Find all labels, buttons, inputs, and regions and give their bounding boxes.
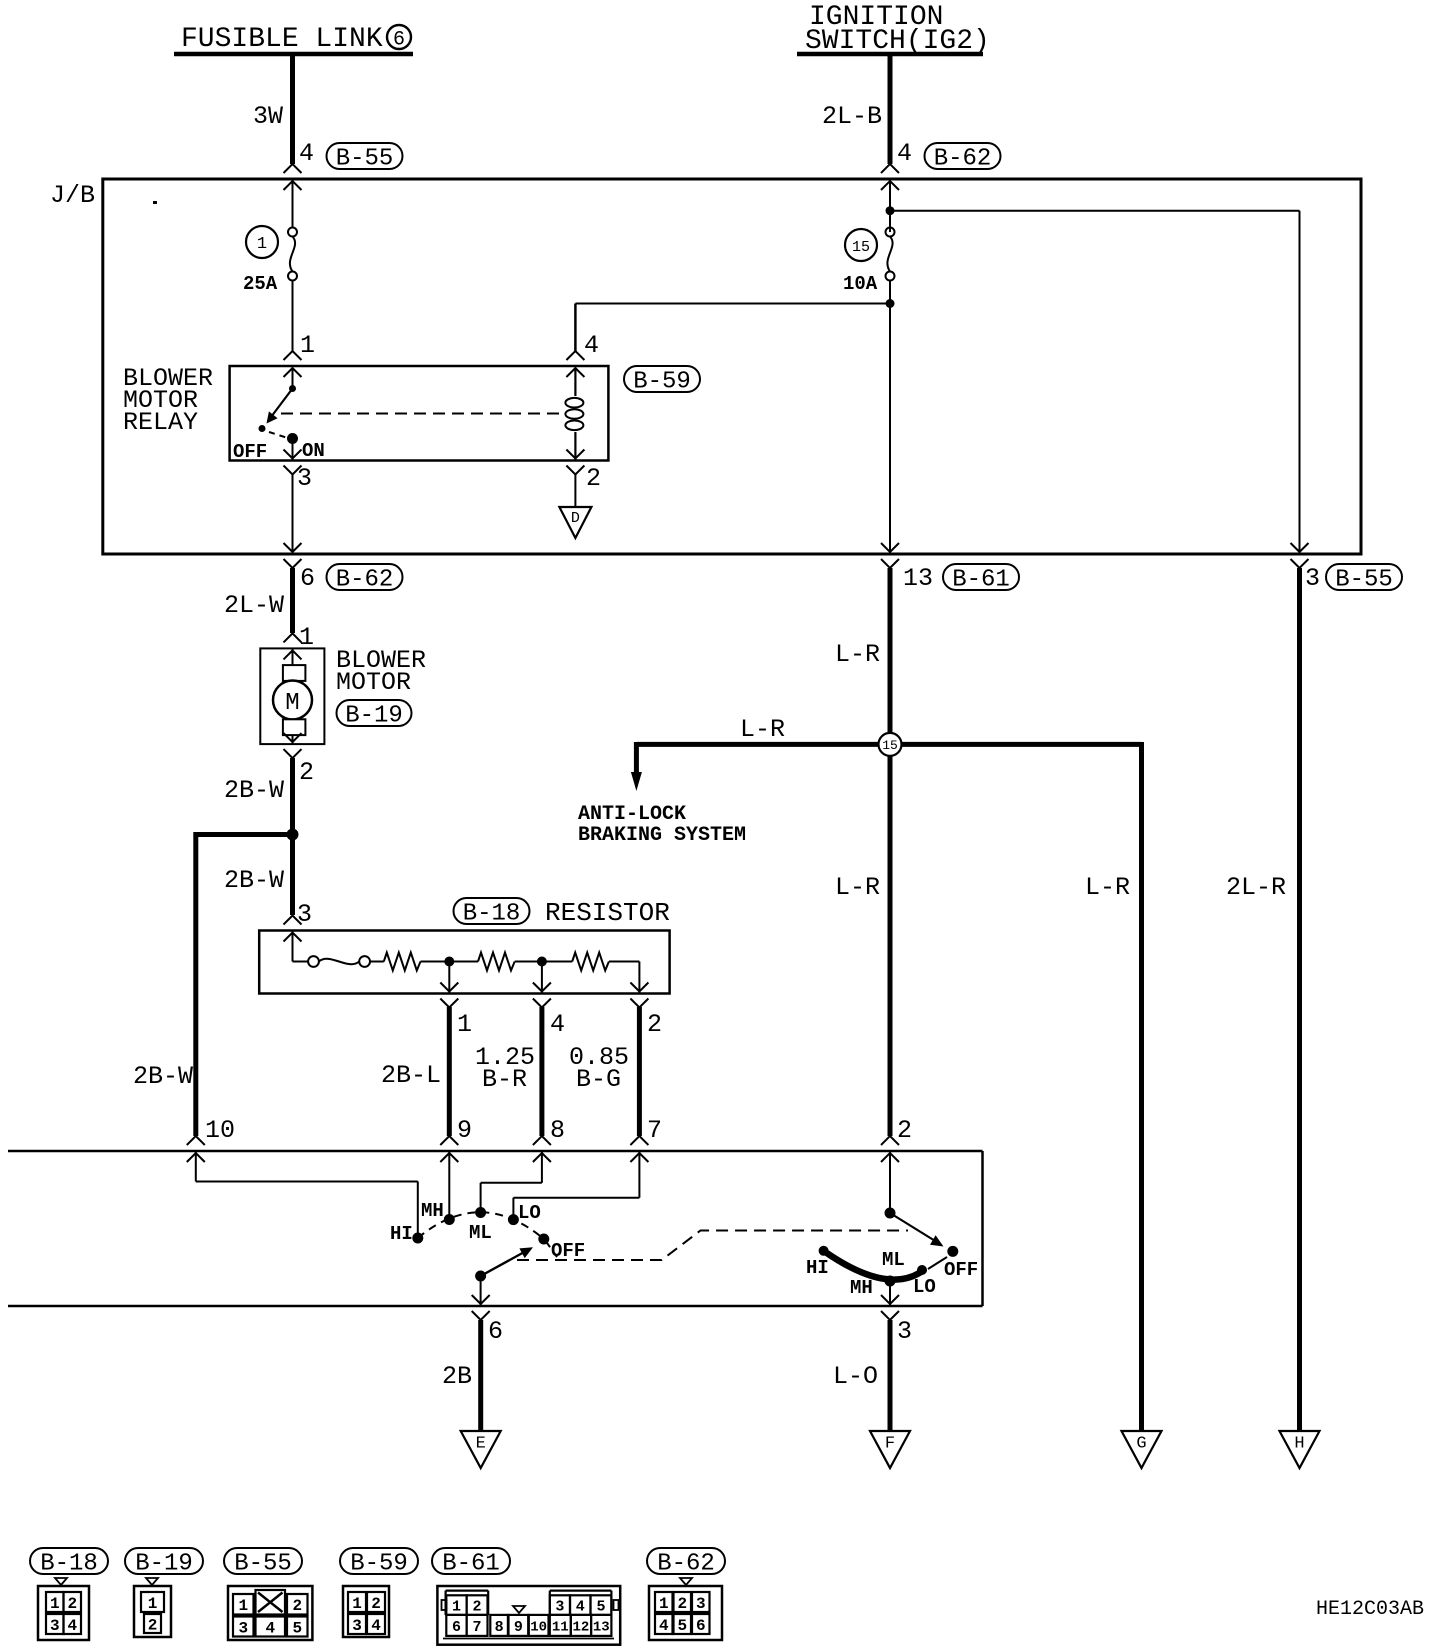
svg-text:FUSIBLE LINK: FUSIBLE LINK: [181, 24, 383, 55]
wire 2L-W to blower motor: [224, 568, 293, 633]
svg-text:ON: ON: [302, 440, 325, 462]
svg-text:RESISTOR: RESISTOR: [545, 898, 670, 928]
blower motor M1 (B-19): [260, 623, 426, 744]
wire 2B-W motor to junction: [224, 758, 293, 835]
svg-text:6: 6: [488, 1317, 503, 1346]
relay dashed actuation link: [281, 413, 566, 415]
svg-text:4: 4: [584, 331, 599, 360]
switch pin 8: [533, 1116, 565, 1162]
svg-text:4: 4: [659, 1617, 669, 1635]
svg-text:2B-L: 2B-L: [381, 1061, 441, 1090]
svg-text:2: 2: [67, 1595, 77, 1613]
svg-text:6: 6: [696, 1617, 706, 1635]
svg-text:2B: 2B: [442, 1362, 472, 1391]
svg-text:4: 4: [67, 1617, 77, 1635]
ground H: [1280, 1431, 1320, 1468]
svg-text:13: 13: [903, 564, 933, 593]
contact OFF (right): [928, 1246, 978, 1281]
svg-text:B-18: B-18: [463, 901, 521, 928]
svg-text:3: 3: [897, 1317, 912, 1346]
svg-text:2B-W: 2B-W: [224, 776, 284, 805]
drawing number HE12C03AB: [1316, 1598, 1424, 1621]
svg-text:OFF: OFF: [551, 1240, 585, 1262]
svg-text:3: 3: [352, 1617, 362, 1635]
right switch labels: [806, 1249, 936, 1299]
connector B-55 pin 3 (J/B bottom exit): [1291, 543, 1403, 594]
svg-text:2L-W: 2L-W: [224, 591, 284, 620]
resistor pin 2: [630, 983, 662, 1040]
svg-text:2L-R: 2L-R: [1226, 873, 1286, 902]
connector diagram B-19 label: [125, 1548, 203, 1578]
connector B-62 pin 4 (top entry): [881, 139, 1001, 190]
relay pin 3: [284, 450, 313, 494]
svg-text:4: 4: [299, 139, 314, 168]
svg-text:10: 10: [530, 1619, 547, 1635]
node switch common: [475, 1271, 486, 1282]
dashed link left OFF to right wiper: [517, 1231, 908, 1261]
resistor element R-b: [449, 953, 542, 971]
switch pin 3 exit: [881, 1295, 912, 1346]
svg-text:13: 13: [593, 1619, 610, 1635]
svg-text:B-55: B-55: [336, 146, 394, 173]
contact MH (left): [421, 1200, 455, 1225]
svg-text:12: 12: [573, 1619, 590, 1635]
resistor pin 4: [533, 983, 565, 1040]
blower motor pin 2: [284, 733, 315, 787]
svg-text:9: 9: [457, 1116, 472, 1145]
svg-text:B-62: B-62: [657, 1551, 715, 1578]
wire pin 2 to right wiper: [889, 1151, 891, 1213]
svg-text:1: 1: [659, 1595, 669, 1613]
wire 2B to ground E: [442, 1320, 481, 1431]
svg-text:LO: LO: [518, 1202, 541, 1224]
svg-text:M: M: [285, 690, 299, 717]
svg-text:B-59: B-59: [350, 1551, 408, 1578]
svg-text:RELAY: RELAY: [123, 408, 198, 437]
svg-text:7: 7: [647, 1116, 662, 1145]
wire pin 8 to ML contact: [481, 1151, 542, 1213]
svg-text:B-62: B-62: [336, 567, 394, 594]
svg-text:L-R: L-R: [835, 640, 880, 669]
relay pin 4: [566, 331, 599, 377]
wire 2B-W branch to switch pin 10: [133, 832, 293, 1136]
svg-text:ML: ML: [469, 1222, 492, 1244]
power source IGNITION SWITCH (IG2): [797, 2, 990, 57]
svg-text:2: 2: [148, 1616, 158, 1634]
svg-text:1: 1: [238, 1597, 248, 1615]
svg-text:3: 3: [50, 1617, 60, 1635]
svg-text:L-R: L-R: [1085, 873, 1130, 902]
contact HI (left): [390, 1223, 423, 1245]
svg-text:4: 4: [897, 139, 912, 168]
wire 2L-R to ground H: [1226, 568, 1300, 1431]
resistor pin 1: [440, 983, 472, 1040]
svg-text:7: 7: [473, 1619, 482, 1636]
svg-text:1: 1: [452, 1599, 461, 1616]
svg-text:2: 2: [586, 464, 601, 493]
svg-text:MOTOR: MOTOR: [336, 668, 411, 697]
connector diagram B-59 label: [340, 1548, 418, 1578]
svg-text:1: 1: [257, 235, 267, 254]
wire 0.85 B-G: [569, 1007, 639, 1136]
svg-text:MH: MH: [421, 1200, 444, 1222]
resistor element R-c: [542, 953, 640, 971]
svg-text:D: D: [571, 510, 580, 527]
wire L-R lower to switch pin 2: [835, 756, 890, 1136]
switch pin 6 exit: [472, 1295, 503, 1346]
contact OFF (left): [538, 1234, 585, 1263]
ground F: [870, 1431, 910, 1468]
power source FUSIBLE LINK 6: [174, 24, 413, 55]
wire 3W from fusible link: [253, 54, 293, 164]
svg-text:B-61: B-61: [952, 567, 1010, 594]
svg-text:8: 8: [495, 1619, 504, 1636]
resistor R1 (B-18): [259, 898, 670, 994]
connector diagram B-59: [343, 1586, 389, 1637]
svg-text:4: 4: [371, 1617, 381, 1635]
wire relay pin 2 to ground D: [574, 474, 576, 507]
resistor element R-a: [384, 953, 450, 971]
svg-text:6: 6: [393, 29, 405, 52]
svg-text:3: 3: [297, 464, 312, 493]
svg-text:B-19: B-19: [345, 703, 403, 730]
connector B-61 pin 13 (J/B bottom exit): [881, 543, 1019, 594]
svg-text:MH: MH: [850, 1277, 873, 1299]
node joint 15: [879, 733, 902, 756]
svg-text:4: 4: [265, 1619, 275, 1637]
svg-text:2: 2: [677, 1595, 687, 1613]
svg-text:1: 1: [50, 1595, 60, 1613]
switch pin 2: [881, 1116, 912, 1162]
connector diagram B-61 label: [432, 1548, 510, 1578]
switch pin 10: [187, 1116, 235, 1162]
wire pin 9 to MH contact: [448, 1151, 450, 1220]
left switch dashed contact arc: [418, 1212, 544, 1239]
svg-text:L-R: L-R: [740, 715, 785, 744]
wire L-O to ground F: [833, 1320, 890, 1431]
fuse 1 25A: [243, 226, 297, 295]
ground G: [1122, 1431, 1162, 1468]
svg-text:ML: ML: [882, 1249, 905, 1271]
svg-text:3: 3: [238, 1619, 248, 1637]
connector diagram B-18: [38, 1578, 89, 1640]
ground E: [461, 1431, 501, 1468]
svg-text:B-62: B-62: [934, 146, 992, 173]
svg-text:15: 15: [852, 239, 870, 256]
svg-text:15: 15: [882, 738, 898, 753]
svg-text:L-O: L-O: [833, 1362, 878, 1391]
node 10A output junction: [886, 299, 895, 308]
svg-text:1: 1: [352, 1595, 362, 1613]
svg-text:B-59: B-59: [633, 369, 691, 396]
relay coil: [565, 368, 583, 461]
wire 10A fuse to B-61 pin 13 exit: [889, 304, 891, 555]
svg-text:3W: 3W: [253, 102, 283, 131]
svg-text:J/B: J/B: [50, 181, 95, 210]
node resistor tap 1: [444, 957, 454, 994]
svg-text:2: 2: [299, 758, 314, 787]
svg-text:LO: LO: [913, 1276, 936, 1298]
svg-text:3: 3: [555, 1599, 564, 1616]
node resistor tap 4: [537, 957, 547, 994]
svg-text:6: 6: [452, 1619, 461, 1636]
svg-text:B-55: B-55: [1335, 567, 1393, 594]
wire arc to pin 3: [889, 1281, 891, 1306]
wire pin 7 to LO contact: [513, 1151, 639, 1220]
wire 2B-L: [381, 1007, 449, 1136]
node right wiper pivot: [885, 1208, 896, 1219]
wire 10A fuse to relay coil: [575, 280, 890, 351]
svg-text:10A: 10A: [843, 273, 878, 295]
svg-text:5: 5: [677, 1617, 687, 1635]
svg-text:3: 3: [696, 1595, 706, 1613]
svg-text:3: 3: [1305, 564, 1320, 593]
svg-text:3: 3: [297, 900, 312, 929]
svg-text:1: 1: [148, 1595, 158, 1613]
connector diagram B-19: [134, 1578, 171, 1637]
svg-text:B-19: B-19: [135, 1551, 193, 1578]
svg-text:OFF: OFF: [944, 1259, 978, 1281]
svg-text:B-61: B-61: [442, 1551, 500, 1578]
svg-text:B-G: B-G: [576, 1065, 621, 1094]
svg-text:5: 5: [292, 1619, 302, 1637]
left switch wiper arm: [481, 1247, 533, 1276]
connector diagram B-62 label: [647, 1548, 725, 1578]
svg-text:H: H: [1294, 1434, 1304, 1453]
anti-lock braking system label: [578, 803, 746, 847]
blower switch box: [8, 1151, 983, 1306]
svg-text:1: 1: [300, 331, 315, 360]
wire switch common to pin 6: [480, 1276, 482, 1306]
node ignition branch junction: [886, 206, 895, 215]
svg-text:10: 10: [205, 1116, 235, 1145]
svg-text:2: 2: [897, 1116, 912, 1145]
svg-text:1: 1: [457, 1010, 472, 1039]
svg-text:L-R: L-R: [835, 873, 880, 902]
resistor output to pin 2: [638, 962, 640, 994]
svg-text:F: F: [885, 1434, 895, 1453]
wire ignition branch to right column: [890, 181, 1300, 555]
scan speck: [153, 201, 157, 204]
connector B-55 pin 4 (top entry): [284, 139, 403, 190]
junction block J/B: [50, 179, 1361, 554]
relay pin 1: [284, 331, 316, 377]
wire 2L-B from ignition switch: [822, 54, 890, 164]
svg-text:OFF: OFF: [233, 441, 267, 463]
svg-text:B-18: B-18: [40, 1551, 98, 1578]
svg-text:2B-W: 2B-W: [224, 866, 284, 895]
connector diagram B-61: [437, 1586, 620, 1645]
svg-text:8: 8: [550, 1116, 565, 1145]
blower motor relay U1 (B-59): [123, 364, 700, 461]
svg-text:2B-W: 2B-W: [133, 1062, 193, 1091]
contact LO (left): [508, 1202, 541, 1225]
svg-text:2: 2: [371, 1595, 381, 1613]
switch pin 7: [630, 1116, 662, 1162]
svg-text:HI: HI: [390, 1223, 413, 1245]
right switch wiper arm: [890, 1213, 944, 1247]
node 2B-W junction: [287, 829, 299, 841]
svg-text:E: E: [476, 1434, 486, 1453]
relay pin 2: [566, 450, 601, 494]
svg-text:25A: 25A: [243, 273, 278, 295]
contact ML (left): [469, 1207, 492, 1244]
connector diagram B-18 label: [30, 1548, 108, 1578]
relay switch contact (movable arm, OFF/ON): [233, 369, 325, 463]
svg-text:4: 4: [550, 1010, 565, 1039]
svg-text:2L-B: 2L-B: [822, 102, 882, 131]
svg-text:B-R: B-R: [482, 1065, 527, 1094]
svg-text:5: 5: [596, 1599, 605, 1616]
resistor internal input link: [293, 931, 384, 967]
connector B-62 pin 6 (bottom exit): [284, 543, 403, 594]
wire L-R to ground G: [902, 742, 1142, 1431]
svg-text:G: G: [1136, 1434, 1146, 1453]
svg-text:11: 11: [552, 1619, 569, 1635]
fuse 15 10A: [843, 228, 895, 296]
wire 2B-W junction to resistor: [224, 835, 293, 916]
wire 1.25 B-R: [475, 1007, 542, 1136]
wire fuse 1 to relay pin 1: [292, 181, 294, 352]
svg-text:BRAKING SYSTEM: BRAKING SYSTEM: [578, 824, 746, 847]
connector diagram B-62: [649, 1578, 722, 1640]
wire L-R upper: [835, 568, 890, 733]
svg-text:4: 4: [576, 1599, 585, 1616]
wire pin 10 to HI contact: [196, 1151, 418, 1238]
right switch contact arc: [819, 1246, 927, 1287]
ground D: [559, 507, 591, 538]
wire relay pin 3 to J/B exit: [292, 474, 294, 554]
wire L-R to anti-lock braking system: [631, 715, 879, 791]
svg-text:ANTI-LOCK: ANTI-LOCK: [578, 803, 686, 826]
svg-text:6: 6: [300, 564, 315, 593]
svg-text:2: 2: [647, 1010, 662, 1039]
switch pin 9: [440, 1116, 472, 1162]
svg-text:HE12C03AB: HE12C03AB: [1316, 1598, 1424, 1621]
svg-text:B-55: B-55: [234, 1551, 292, 1578]
svg-text:2: 2: [292, 1597, 302, 1615]
connector diagram B-55 label: [224, 1548, 302, 1578]
svg-text:9: 9: [514, 1619, 523, 1636]
svg-text:HI: HI: [806, 1257, 829, 1279]
connector diagram B-55: [228, 1586, 312, 1640]
svg-text:2: 2: [473, 1599, 482, 1616]
